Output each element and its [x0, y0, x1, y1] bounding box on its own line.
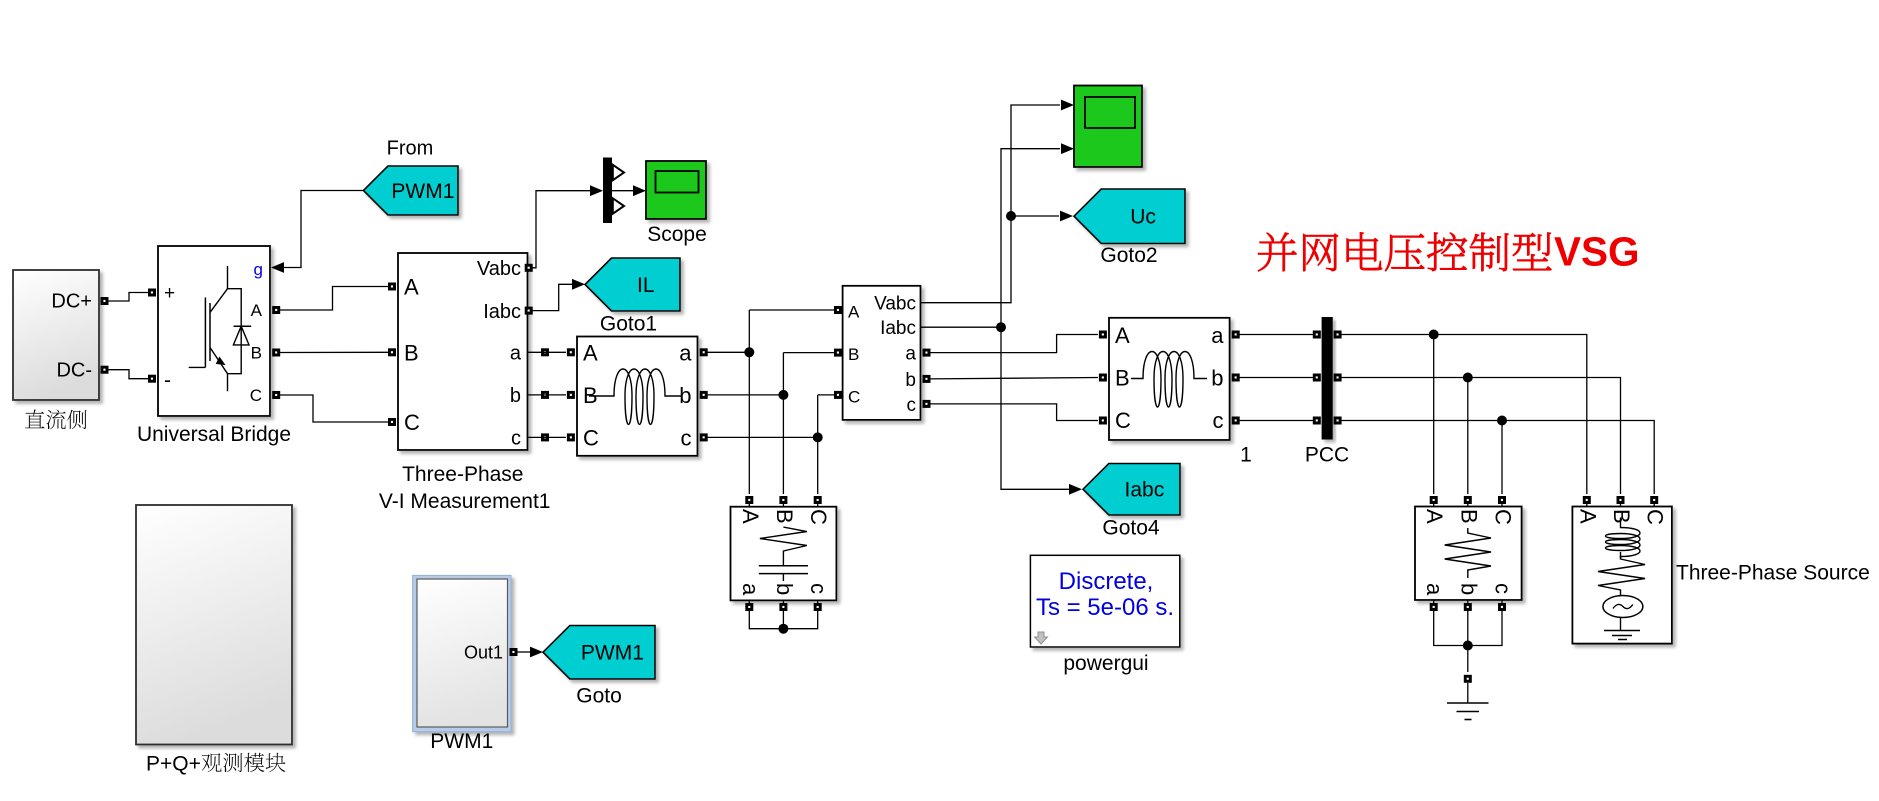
wire DC+ to bridge +: [108, 293, 148, 302]
svg-text:C: C: [404, 410, 420, 435]
svg-text:b: b: [772, 583, 797, 595]
svg-text:IL: IL: [637, 274, 655, 297]
wire PWM1 Out1 to Goto: [518, 647, 544, 658]
svg-text:Iabc: Iabc: [1125, 479, 1165, 502]
icon: resistor + capacitor: [759, 527, 808, 581]
icon: IGBT with anti-parallel diode: [189, 266, 252, 391]
wire L1 a to meas2 A and cap bank A, junction: [708, 310, 835, 494]
svg-text:C: C: [1643, 509, 1668, 525]
port DC+: [101, 297, 109, 305]
block: Scope: [646, 161, 706, 219]
svg-text:-: -: [164, 369, 171, 392]
source port leads: [1587, 503, 1654, 507]
block: capacitor bank (series RC branch): [731, 507, 837, 601]
inductor1 ports: [567, 348, 708, 441]
svg-text:c: c: [681, 426, 692, 451]
svg-text:PCC: PCC: [1305, 444, 1349, 467]
svg-text:Discrete,: Discrete,: [1059, 568, 1154, 595]
svg-text:a: a: [1211, 323, 1224, 348]
svg-text:B: B: [848, 345, 859, 364]
svg-text:b: b: [679, 383, 691, 408]
mux (bar): [603, 158, 624, 224]
block: DC source (直流侧): [13, 270, 99, 400]
svg-text:C: C: [1491, 509, 1516, 525]
wire meas1 Iabc to Goto1 IL: [532, 279, 585, 311]
svg-text:Goto: Goto: [576, 685, 622, 708]
icon: inductor coil: [589, 369, 681, 425]
svg-text:B: B: [772, 509, 797, 524]
svg-text:From: From: [387, 138, 434, 160]
wire DC- to bridge -: [108, 370, 148, 379]
block: PWM1 subsystem: [413, 575, 511, 731]
port DC-: [101, 366, 109, 374]
bus C wire: PCC to source C with junction to load C: [1342, 416, 1655, 495]
svg-text:A: A: [1575, 509, 1600, 524]
svg-text:P+Q+: P+Q+: [146, 753, 201, 776]
svg-text:a: a: [679, 341, 692, 366]
cap bank port leads: [749, 503, 817, 603]
load port leads: [1434, 503, 1502, 603]
svg-text:C: C: [583, 426, 599, 451]
arrow into g port: [271, 262, 284, 273]
svg-text:Iabc: Iabc: [880, 318, 916, 339]
svg-text:b: b: [905, 370, 916, 391]
block: three-phase series inductor L2: [1109, 318, 1230, 440]
source ports: [1583, 496, 1658, 504]
icon: inductor coil 2: [1131, 352, 1207, 408]
svg-text:Goto4: Goto4: [1102, 517, 1160, 540]
svg-text:g: g: [254, 260, 263, 279]
svg-text:b: b: [1211, 366, 1223, 391]
svg-text:c: c: [806, 583, 831, 594]
bus A wire: PCC to source A with junction to load A: [1342, 330, 1587, 495]
icon: source internal ground: [1604, 631, 1640, 640]
block: powergui: [1030, 555, 1179, 647]
inductor2 ports: [1099, 331, 1240, 425]
bus B wire: PCC to source B with junction to load B: [1342, 373, 1621, 495]
cap bank ports: [745, 496, 821, 611]
wire mux to scope: [612, 185, 646, 196]
svg-text:a: a: [1422, 583, 1447, 596]
load ports: [1430, 496, 1506, 611]
ground symbol: [1447, 703, 1489, 720]
svg-text:A: A: [1422, 509, 1447, 524]
wire meas2 c to L2 C: [931, 404, 1099, 421]
svg-text:Vabc: Vabc: [477, 258, 521, 280]
block: P+Q observation module: [136, 505, 292, 745]
wire meas2 Iabc to scope2 and Goto4 Iabc, junction: [921, 143, 1083, 494]
block: Three-Phase V-I Measurement1: [398, 253, 528, 450]
wire meas2 Vabc to scope2 and Goto2 Uc, junction: [921, 100, 1075, 303]
svg-text:a: a: [905, 344, 916, 365]
svg-text:V-I Measurement1: V-I Measurement1: [379, 490, 551, 513]
svg-text:Ts = 5e-06 s.: Ts = 5e-06 s.: [1036, 594, 1174, 621]
svg-text:Iabc: Iabc: [483, 301, 521, 323]
wire L1 c to meas2 C and cap bank C, junction: [708, 395, 835, 494]
svg-text:Three-Phase Source: Three-Phase Source: [1676, 562, 1870, 585]
svg-text:A: A: [1115, 323, 1130, 348]
svg-text:VSG: VSG: [1554, 229, 1640, 275]
svg-text:Universal Bridge: Universal Bridge: [137, 423, 291, 446]
icon: load resistor zigzag: [1445, 528, 1491, 578]
svg-text:a: a: [510, 343, 522, 365]
load star point to ground: [1434, 611, 1502, 703]
svg-text:c: c: [1491, 583, 1516, 594]
svg-text:a: a: [738, 583, 763, 596]
svg-text:B: B: [1609, 509, 1634, 524]
svg-text:A: A: [738, 509, 763, 524]
wire bridge C to meas1 C: [280, 395, 388, 422]
svg-text:Scope: Scope: [647, 223, 707, 246]
svg-text:B: B: [1456, 509, 1481, 524]
PWM1 out port: [510, 648, 518, 656]
Goto tag Uc: [1074, 189, 1185, 244]
svg-text:Goto1: Goto1: [600, 313, 657, 336]
block: Scope2: [1074, 86, 1142, 168]
svg-text:B: B: [1115, 366, 1130, 391]
svg-text:Three-Phase: Three-Phase: [402, 463, 523, 486]
svg-text:Vabc: Vabc: [874, 294, 916, 315]
svg-text:PWM1: PWM1: [391, 180, 454, 203]
svg-text:PWM1: PWM1: [430, 730, 493, 753]
svg-text:DC-: DC-: [56, 360, 92, 382]
meas2 ports: [834, 306, 931, 408]
svg-text:+: +: [164, 283, 175, 304]
block: three-phase series inductor L1: [577, 337, 698, 456]
svg-text:C: C: [848, 387, 860, 406]
wire meas2 b to L2 B: [931, 378, 1099, 379]
cap bank star point wire: [749, 611, 817, 634]
meas1 ports: [388, 264, 549, 442]
wire meas1 Vabc to mux: [532, 185, 603, 267]
wire bridge A to meas1 A: [280, 287, 388, 311]
svg-text:Goto2: Goto2: [1100, 244, 1157, 267]
PCC bus bar: [1322, 317, 1333, 440]
wires L2 abc to PCC: [1240, 335, 1314, 421]
From tag PWM1: [363, 166, 458, 215]
svg-text:c: c: [1213, 408, 1224, 433]
svg-text:C: C: [1115, 408, 1131, 433]
svg-text:Uc: Uc: [1130, 206, 1156, 229]
svg-text:powergui: powergui: [1063, 652, 1148, 675]
svg-text:B: B: [404, 340, 419, 365]
Goto tag Iabc: [1083, 464, 1180, 516]
block: three-phase parallel RLC load: [1415, 507, 1522, 601]
block: Universal Bridge U1: [158, 246, 270, 416]
svg-text:A: A: [251, 301, 263, 320]
bridge ports: [148, 289, 280, 400]
svg-text:PWM1: PWM1: [581, 642, 644, 665]
svg-text:b: b: [1456, 583, 1481, 595]
Goto tag PWM1: [543, 626, 655, 680]
icon: source impedance coil (rotated): [1606, 518, 1641, 559]
icon: AC source circle with sine: [1603, 596, 1643, 631]
svg-text:Out1: Out1: [464, 643, 503, 663]
svg-text:A: A: [848, 303, 860, 322]
svg-text:c: c: [511, 428, 521, 450]
svg-text:c: c: [907, 395, 917, 416]
svg-text:b: b: [510, 385, 521, 407]
svg-text:A: A: [404, 275, 419, 300]
svg-text:DC+: DC+: [51, 291, 92, 313]
svg-text:1: 1: [1240, 444, 1252, 467]
wire From PWM1 to bridge g: [284, 191, 363, 268]
wire L1 b to meas2 B and cap bank B, junction: [708, 353, 835, 494]
annotation: 并网电压控制型VSG: [1258, 232, 1551, 271]
wire meas2 a to L2 A: [931, 335, 1099, 353]
label: 直流侧: [25, 409, 87, 429]
svg-text:C: C: [250, 386, 262, 405]
wires meas1 abc to L1 ABC: [528, 352, 567, 437]
wire bridge B to meas1 B: [280, 351, 388, 353]
svg-text:C: C: [806, 509, 831, 525]
svg-text:A: A: [583, 341, 598, 366]
Goto tag IL: [585, 258, 680, 311]
PCC ports: [1313, 331, 1342, 425]
icon: source resistor zigzag: [1598, 552, 1645, 596]
block: three-phase V-I measurement 2: [843, 286, 921, 420]
svg-text:B: B: [251, 344, 262, 363]
block: Three-Phase Source: [1572, 507, 1672, 644]
